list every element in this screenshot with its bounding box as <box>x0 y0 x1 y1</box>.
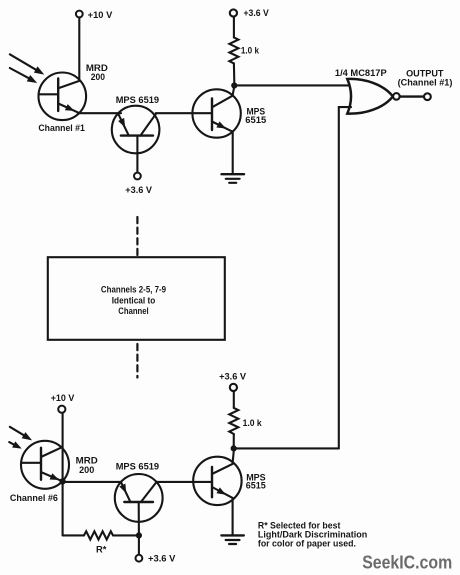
svg-text:Channel: Channel <box>118 306 148 316</box>
svg-text:+3.6 V: +3.6 V <box>219 372 247 382</box>
svg-text:6515: 6515 <box>245 115 266 125</box>
svg-text:MPS 6519: MPS 6519 <box>116 462 159 472</box>
svg-text:6515: 6515 <box>246 481 266 491</box>
svg-text:SeekIC.com: SeekIC.com <box>362 551 452 572</box>
svg-text:for color of paper used.: for color of paper used. <box>258 539 356 549</box>
svg-text:Channel #6: Channel #6 <box>10 493 58 503</box>
svg-text:+3.6 V: +3.6 V <box>244 8 270 18</box>
svg-text:(Channel #1): (Channel #1) <box>398 77 453 87</box>
svg-text:Channels 2-5, 7-9: Channels 2-5, 7-9 <box>101 285 166 295</box>
svg-text:MRD: MRD <box>76 456 98 466</box>
svg-text:1.0 k: 1.0 k <box>243 418 263 428</box>
svg-text:1.0 k: 1.0 k <box>241 46 260 56</box>
svg-text:+10 V: +10 V <box>88 10 113 20</box>
svg-text:200: 200 <box>79 465 94 475</box>
svg-text:Identical to: Identical to <box>112 296 156 306</box>
svg-text:200: 200 <box>91 72 105 82</box>
svg-text:Channel #1: Channel #1 <box>38 123 84 133</box>
svg-text:1/4 MC817P: 1/4 MC817P <box>335 68 387 78</box>
svg-text:R*: R* <box>96 544 107 554</box>
svg-text:+3.6 V: +3.6 V <box>125 185 152 195</box>
svg-text:MPS 6519: MPS 6519 <box>116 95 159 105</box>
svg-text:+10 V: +10 V <box>51 393 75 403</box>
svg-text:+3.6 V: +3.6 V <box>148 553 176 563</box>
